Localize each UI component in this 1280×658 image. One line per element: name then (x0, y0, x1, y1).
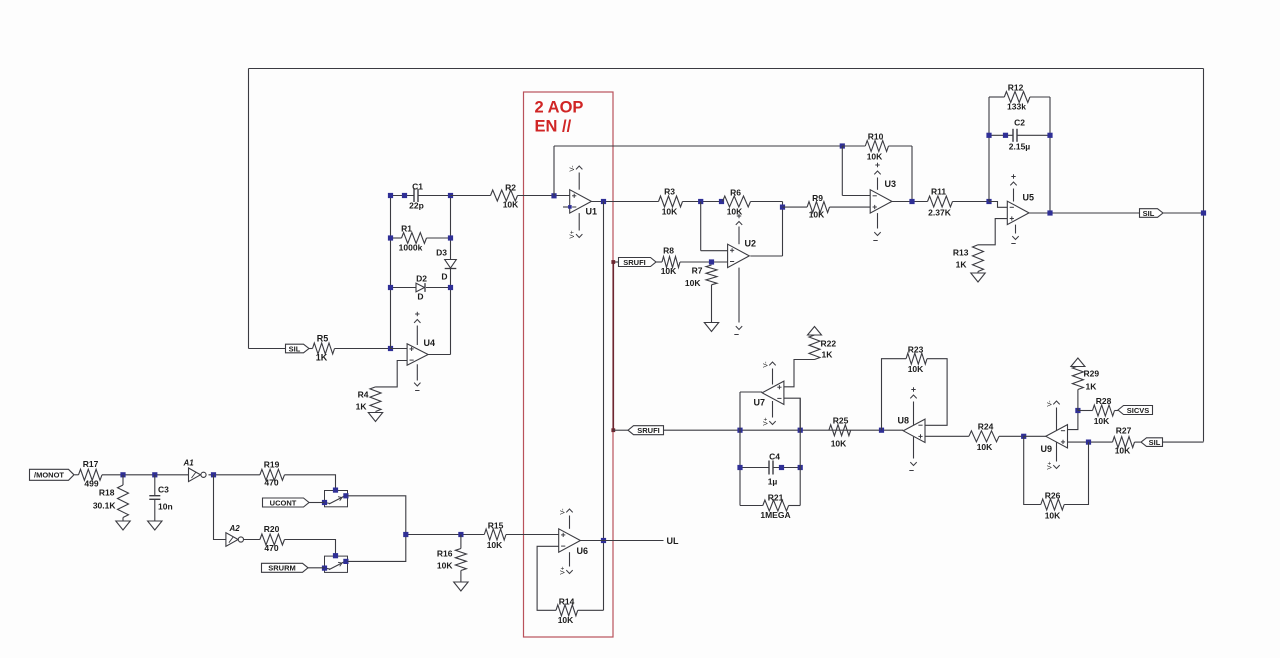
svg-text:C1: C1 (412, 182, 423, 192)
power arrow above R22 (808, 327, 822, 336)
svg-text:470: 470 (264, 478, 278, 488)
power pin V+ of U3 (877, 178, 879, 190)
resistor R17 499 (79, 469, 103, 480)
wire right column (450, 196, 452, 355)
svg-text:10K: 10K (437, 561, 453, 571)
wire left loop vertical (248, 69, 250, 349)
svg-text:10K: 10K (831, 439, 847, 449)
wire (122, 518, 124, 522)
wire into U2 upper input (701, 250, 728, 252)
wire R26 right leg (1064, 442, 1088, 504)
svg-text:V+: V+ (763, 417, 770, 425)
wire R9 to U3 lower input (830, 206, 871, 208)
resistor R11 2.37K (928, 196, 953, 207)
power pin V+ of U2 (738, 227, 740, 245)
resistor R5 (313, 343, 335, 354)
node (779, 465, 784, 470)
svg-text:D3: D3 (436, 248, 447, 258)
node R26 tap (1086, 440, 1091, 445)
node R9 tap (780, 205, 785, 210)
svg-text:SIL: SIL (1143, 209, 1155, 218)
node (986, 133, 991, 138)
svg-text:499: 499 (84, 479, 98, 489)
wire to R9 (783, 206, 808, 208)
svg-text:2.15µ: 2.15µ (1009, 142, 1031, 152)
svg-text:R4: R4 (358, 390, 369, 400)
svg-text:SICVS: SICVS (1127, 406, 1150, 415)
svg-text:/MONOT: /MONOT (34, 471, 64, 480)
resistor R25 10K (829, 425, 851, 436)
svg-text:1µ: 1µ (768, 477, 778, 487)
capacitor C1 22p (413, 189, 415, 202)
wire C2 loop left vertical (988, 97, 990, 202)
svg-text:U6: U6 (577, 546, 589, 556)
wire C1 right (418, 195, 451, 197)
wire right loop vertical (1203, 69, 1205, 442)
node U1 input junction (551, 193, 556, 198)
wire S1 out (348, 496, 406, 535)
resistor R27 10K (1113, 437, 1135, 448)
node (448, 193, 453, 198)
power pin V- of U5 (1015, 225, 1017, 234)
node switch right (343, 493, 348, 498)
wire (1077, 390, 1079, 411)
svg-text:SIL: SIL (1149, 438, 1161, 447)
svg-text:1MEGA: 1MEGA (760, 510, 790, 520)
resistor R18 30.1K (122, 475, 124, 485)
wire R8 to U2 - (680, 261, 728, 263)
wire maroon to flag (613, 429, 628, 431)
wire R23 to U8 - input (925, 359, 947, 426)
wire (460, 571, 462, 583)
svg-text:R2: R2 (505, 183, 516, 193)
svg-text:R18: R18 (99, 488, 115, 498)
ground below R16 (454, 582, 468, 591)
wire R20 to switch S2 (285, 540, 336, 557)
svg-text:R19: R19 (264, 460, 280, 470)
svg-text:SRUFI: SRUFI (623, 258, 646, 267)
wire (309, 348, 313, 350)
svg-text:10K: 10K (661, 266, 677, 276)
wire UCONT to S1 (309, 502, 325, 504)
svg-text:10K: 10K (1115, 446, 1131, 456)
node (388, 193, 393, 198)
svg-text:10K: 10K (867, 152, 883, 162)
net flag SIL (lower right) (1141, 438, 1163, 447)
net flag /MONOT (30, 469, 75, 480)
net flag SRURM (262, 563, 309, 572)
svg-text:1K: 1K (822, 350, 834, 360)
wire U8 lower pin to R24 (925, 435, 969, 437)
node R10 left (840, 143, 845, 148)
svg-text:1000k: 1000k (399, 243, 423, 253)
node R7 tap (709, 259, 714, 264)
svg-text:U2: U2 (745, 239, 757, 249)
net flag SICVS (1118, 406, 1153, 415)
wire U9 - input to R27 (1068, 441, 1113, 443)
power pin V- of U2 (738, 268, 740, 323)
svg-text:R9: R9 (812, 193, 823, 203)
resistor R15 10K (484, 529, 506, 540)
resistor R22 1K (809, 335, 820, 360)
resistor R19 470 (260, 469, 285, 480)
power arrow above R29 (1071, 358, 1085, 367)
resistor R28 10K (1093, 405, 1115, 416)
node (909, 199, 914, 204)
diode D2 (391, 287, 416, 289)
svg-text:V-: V- (1047, 400, 1054, 406)
wire (1135, 441, 1141, 443)
wire U4 output to right column (428, 354, 450, 356)
wire C2 left (989, 134, 1013, 136)
resistor R2 10K (491, 190, 518, 201)
wire R10 feedback row (554, 145, 842, 147)
op-amp U2 (728, 244, 750, 267)
svg-text:EN //: EN // (535, 118, 572, 136)
svg-text:U5: U5 (1023, 193, 1035, 203)
node junction R5/U4 (388, 346, 393, 351)
node U9 tip junction (1021, 434, 1026, 439)
net flag SRUFI (lower) (628, 426, 664, 435)
ground below R18 (116, 521, 130, 530)
svg-text:SRUFI: SRUFI (637, 426, 660, 435)
power pin V+ of U5 (1013, 189, 1015, 202)
svg-text:V-: V- (569, 165, 576, 171)
svg-text:R3: R3 (664, 187, 675, 197)
wire U6 output to UL (580, 540, 663, 542)
wire up from U1 input (553, 146, 555, 196)
svg-text:V+: V+ (569, 230, 576, 238)
svg-text:10K: 10K (727, 207, 743, 217)
wire (656, 261, 662, 263)
wire (889, 145, 913, 147)
analog switch S2 (SRURM) (325, 556, 348, 572)
svg-text:R14: R14 (559, 597, 575, 607)
svg-text:R1: R1 (401, 224, 412, 234)
wire R7 to ground (711, 285, 713, 323)
svg-text:A1: A1 (183, 459, 195, 468)
svg-text:R22: R22 (821, 339, 837, 349)
power pin V+ of U8 (913, 402, 915, 425)
wire R15 to U6 (506, 534, 559, 536)
resistor R26 10K (1041, 499, 1064, 510)
resistor R12 133k (1004, 92, 1030, 103)
svg-text:D: D (417, 292, 423, 302)
wire U5 lower input to R13 (978, 219, 1007, 245)
svg-text:10K: 10K (487, 540, 503, 550)
svg-text:10K: 10K (558, 615, 574, 625)
op-amp U5 (1007, 201, 1029, 224)
capacitor C4 1u (740, 467, 769, 469)
wire stub from bus to SRUFI flag (614, 261, 619, 263)
wire (1115, 410, 1119, 412)
wire left column (390, 196, 392, 349)
wire (989, 96, 1004, 98)
node R16 tap (458, 532, 463, 537)
wire down to U3 input (841, 146, 843, 196)
svg-text:U7: U7 (754, 398, 766, 408)
wire (154, 499, 156, 521)
svg-text:U1: U1 (586, 207, 598, 217)
svg-text:10K: 10K (977, 442, 993, 452)
wire U1 output (592, 201, 659, 203)
svg-text:C2: C2 (1014, 118, 1025, 128)
resistor R21 1MEGA (740, 505, 763, 507)
svg-text:R10: R10 (868, 132, 884, 142)
wire U5 output to SIL (1029, 212, 1140, 214)
svg-text:UL: UL (667, 536, 679, 546)
wire R6 right (751, 201, 783, 203)
wire SIL to right bus (1163, 441, 1204, 443)
power pin V+ of U4 (416, 326, 418, 346)
svg-text:R6: R6 (730, 188, 741, 198)
power pin V+ of U9 (1056, 442, 1058, 461)
resistor R24 10K (969, 431, 999, 442)
op-amp U6 (559, 529, 581, 552)
wire R3 to R6 (683, 201, 723, 203)
resistor R1 1000k (391, 237, 402, 239)
svg-text:V+: V+ (1047, 461, 1054, 469)
power pin V- of U9 (1056, 408, 1058, 431)
resistor R6 10K (723, 196, 751, 207)
node (1047, 133, 1052, 138)
wire to R28 (1078, 410, 1093, 412)
wire to R2 (451, 195, 491, 197)
resistor R20 470 (260, 534, 285, 545)
svg-text:C4: C4 (769, 452, 780, 462)
power pin V- of U3 (877, 213, 879, 228)
node R18 tap (120, 472, 125, 477)
node switch top (333, 553, 338, 558)
svg-text:10K: 10K (809, 210, 825, 220)
svg-text:30.1K: 30.1K (93, 501, 117, 511)
node (1047, 210, 1052, 215)
wire U7 loop right vertical (799, 398, 801, 505)
analog switch S1 (UCONT) (325, 491, 348, 507)
resistor R29 1K (1072, 366, 1083, 390)
svg-text:R17: R17 (83, 459, 99, 469)
op-amp U1 (570, 190, 592, 213)
svg-text:V-: V- (763, 361, 770, 367)
svg-text:R20: R20 (264, 524, 280, 534)
resistor R16 10K (460, 535, 462, 549)
svg-text:SRURM: SRURM (268, 564, 296, 573)
svg-text:R11: R11 (931, 187, 946, 197)
inverter A2 (226, 533, 238, 547)
wire to SIL flag (249, 348, 286, 350)
diode D3 (445, 260, 457, 269)
op-amp U7 (762, 381, 784, 404)
wire S2 out (348, 535, 406, 562)
wire R17 to A1 (102, 474, 188, 476)
node U1 - pin (568, 205, 572, 209)
node switch left (322, 566, 327, 571)
wire A1 out to R19 (209, 474, 260, 476)
ground below R13 (971, 273, 985, 282)
svg-text:C3: C3 (158, 485, 169, 495)
ground below R4 (368, 413, 382, 422)
resistor R14 10K (556, 605, 578, 616)
node R11/C2 junction (986, 199, 991, 204)
node (698, 199, 703, 204)
resistor R4 1K (370, 387, 381, 412)
wire U6 - input / R14 feedback (537, 546, 559, 610)
node right bus (1201, 210, 1206, 215)
wire to U2 output tip (750, 255, 782, 257)
long vertical wire U1 output to U6 output/R14 (603, 202, 605, 611)
wire down to U2 output (782, 202, 784, 257)
svg-text:10n: 10n (158, 502, 173, 512)
wire U7 - input down to SRUFI row (784, 398, 800, 430)
svg-text:R12: R12 (1008, 83, 1024, 93)
node U1 output junction (601, 199, 606, 204)
resistor R3 10K (659, 196, 683, 207)
svg-text:R25: R25 (833, 416, 849, 426)
svg-text:1K: 1K (956, 260, 968, 270)
power pin V+ of U7 (772, 401, 774, 418)
ground below R7 (704, 323, 718, 332)
capacitor C2 2.15u (1012, 129, 1014, 142)
node C3 tap (152, 472, 157, 477)
node U6 output junction (601, 538, 606, 543)
wire C2 right (1017, 134, 1050, 136)
resistor R26 feedback loop (1024, 436, 1041, 504)
svg-text:22p: 22p (409, 201, 424, 211)
svg-text:470: 470 (264, 543, 278, 553)
capacitor C3 10n (154, 475, 156, 496)
svg-text:R26: R26 (1045, 491, 1061, 501)
op-amp U4 (407, 344, 428, 366)
R23 feedback loop (882, 359, 907, 431)
svg-text:R7: R7 (692, 266, 703, 276)
svg-text:10K: 10K (1094, 416, 1110, 426)
svg-text:10K: 10K (503, 200, 519, 210)
wire (977, 272, 979, 274)
node A1 out junction (211, 472, 216, 477)
wire to U9 tip (1024, 435, 1047, 437)
resistor R7 10K (706, 265, 717, 285)
node (1003, 133, 1008, 138)
node maroon bottom (611, 428, 615, 432)
net flag SIL (left) (286, 344, 310, 353)
svg-text:R8: R8 (663, 246, 674, 256)
maroon net wire SRUFI bus (vertical) (612, 262, 614, 430)
svg-text:D: D (441, 272, 447, 282)
svg-text:1K: 1K (316, 353, 328, 363)
ground below C3 (148, 521, 162, 530)
svg-text:R27: R27 (1116, 426, 1132, 436)
wire SRUFI row to U8 (664, 429, 904, 431)
svg-text:R23: R23 (908, 345, 924, 355)
wire (842, 145, 865, 147)
wire into U4 - (391, 348, 408, 350)
svg-text:R24: R24 (978, 422, 994, 432)
wire SIL flag to right bus (1163, 212, 1204, 214)
svg-text:R16: R16 (437, 549, 453, 559)
wire to U7 tip (740, 391, 762, 393)
node U7 loop left (737, 428, 742, 433)
power pin V- of U7 (772, 369, 774, 385)
frame / red group box "2 AOP EN //" (524, 92, 614, 637)
node (719, 199, 724, 204)
svg-text:1K: 1K (1086, 382, 1098, 392)
svg-text:10K: 10K (685, 278, 701, 288)
wire R14 to vertical (578, 609, 604, 611)
wire top loop horizontal (249, 68, 1204, 70)
node R28/R29 (1075, 408, 1080, 413)
node U7 loop right (798, 428, 803, 433)
wire R2 to U1 (518, 195, 570, 197)
node (402, 193, 407, 198)
node switch join (403, 532, 408, 537)
resistor R23 10K (906, 353, 927, 364)
svg-text:133k: 133k (1007, 102, 1026, 112)
wire U4 + input to R4 (376, 361, 408, 387)
wire U7 + input up to R22 (784, 360, 815, 387)
svg-text:1K: 1K (356, 402, 368, 412)
net flag SIL (top right) (1140, 209, 1164, 218)
node switch right (343, 559, 348, 564)
wire R10 down to U3 out (911, 146, 913, 202)
wire R11 to U5 (953, 201, 990, 203)
wire U7 loop left vertical (739, 392, 741, 506)
svg-text:2.37K: 2.37K (928, 208, 952, 218)
svg-text:V-: V- (560, 508, 567, 514)
wire U9 + input up to R29/R28 node (1068, 411, 1078, 430)
node (448, 235, 453, 240)
svg-text:V+: V+ (560, 566, 567, 574)
svg-text:10K: 10K (908, 364, 924, 374)
svg-text:R5: R5 (317, 334, 329, 344)
svg-text:U3: U3 (885, 179, 897, 189)
power pin V- of U8 (913, 437, 915, 459)
op-amp U9 (1046, 425, 1068, 448)
wire C2 loop right vertical (1049, 97, 1051, 213)
wire C1 left (391, 195, 415, 197)
node switch top (333, 488, 338, 493)
resistor R9 10K (807, 202, 829, 213)
node (388, 235, 393, 240)
svg-text:2 AOP: 2 AOP (535, 99, 584, 117)
svg-text:R28: R28 (1096, 396, 1112, 406)
wire A2 to R20 (244, 539, 260, 541)
power pin V+ of U6 (569, 552, 571, 566)
net flag UCONT (263, 498, 310, 507)
wire A1 to A2 (214, 475, 226, 540)
power pin V- of U4 (416, 364, 418, 380)
wire R24 to U9 (999, 435, 1024, 437)
svg-text:U9: U9 (1041, 444, 1053, 454)
wire (75, 474, 79, 476)
inverter A1 (189, 468, 201, 482)
node U8 tip (879, 428, 884, 433)
svg-text:UCONT: UCONT (270, 498, 297, 507)
node (737, 465, 742, 470)
net flag SRUFI (upper) (619, 258, 657, 267)
svg-text:U8: U8 (898, 416, 910, 426)
svg-text:10K: 10K (662, 207, 678, 217)
svg-text:U4: U4 (424, 338, 436, 348)
svg-text:D2: D2 (416, 274, 427, 284)
power pin V- of U6 (569, 516, 571, 529)
resistor R13 1K (973, 245, 984, 272)
svg-text:SIL: SIL (289, 344, 301, 353)
svg-text:10K: 10K (1045, 511, 1061, 521)
svg-text:R15: R15 (488, 521, 504, 531)
wire (1030, 96, 1050, 98)
wire into U3 upper input (842, 195, 870, 197)
wire R11 junction to U5 upper input (989, 202, 1007, 208)
